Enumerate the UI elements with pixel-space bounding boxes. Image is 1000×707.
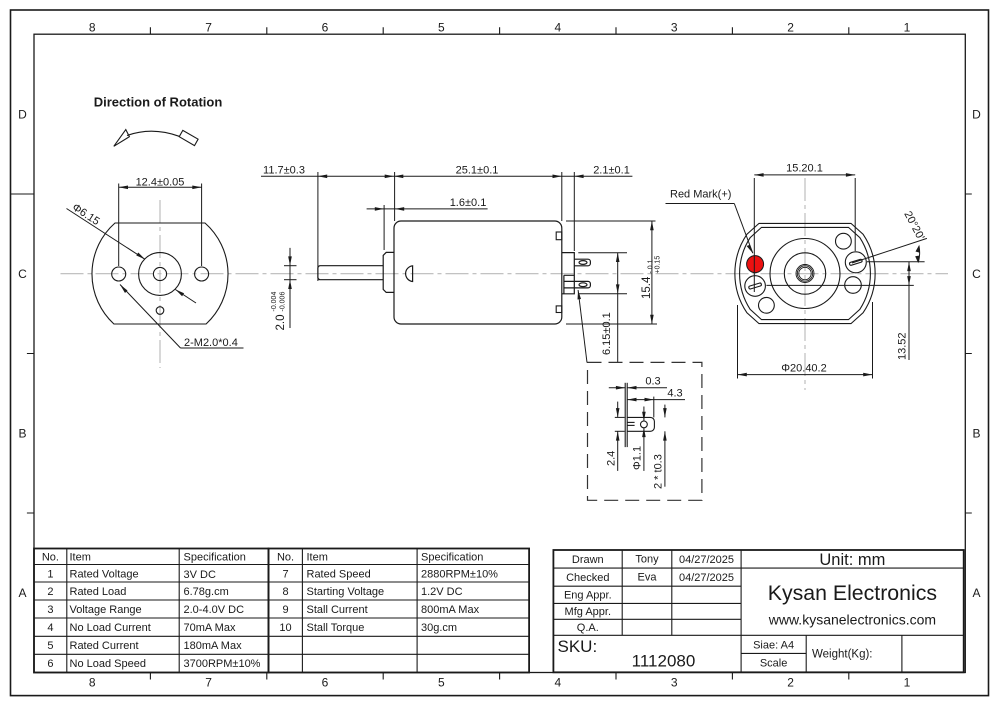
svg-text:- 0.1: - 0.1 — [648, 259, 655, 273]
svg-text:3: 3 — [671, 21, 678, 35]
svg-text:C: C — [972, 267, 981, 281]
svg-text:1: 1 — [47, 569, 53, 581]
svg-text:2 * t0.3: 2 * t0.3 — [653, 454, 665, 489]
svg-text:3V DC: 3V DC — [184, 569, 216, 581]
svg-text:2: 2 — [47, 586, 53, 598]
svg-text:Voltage Range: Voltage Range — [70, 604, 142, 616]
svg-text:2.0: 2.0 — [275, 315, 287, 331]
svg-text:12.4±0.05: 12.4±0.05 — [136, 177, 185, 189]
svg-text:Direction of Rotation: Direction of Rotation — [94, 95, 223, 110]
svg-text:3: 3 — [671, 676, 678, 690]
svg-text:SKU:: SKU: — [558, 637, 598, 656]
svg-text:6: 6 — [47, 658, 53, 670]
svg-text:1.2V DC: 1.2V DC — [421, 586, 463, 598]
svg-text:25.1±0.1: 25.1±0.1 — [456, 164, 499, 176]
svg-text:15.20.1: 15.20.1 — [786, 163, 823, 175]
svg-text:Specification: Specification — [421, 552, 483, 564]
svg-text:2.0-4.0V DC: 2.0-4.0V DC — [184, 604, 245, 616]
svg-text:Drawn: Drawn — [572, 554, 604, 566]
svg-text:Checked: Checked — [566, 572, 609, 584]
svg-text:5: 5 — [438, 21, 445, 35]
svg-text:6: 6 — [322, 21, 329, 35]
svg-text:7: 7 — [205, 21, 212, 35]
svg-text:2: 2 — [787, 676, 794, 690]
svg-text:Rated Speed: Rated Speed — [307, 569, 371, 581]
svg-text:13.52: 13.52 — [897, 332, 909, 360]
svg-text:9: 9 — [282, 604, 288, 616]
svg-text:1112080: 1112080 — [632, 652, 696, 671]
svg-text:A: A — [972, 586, 980, 600]
svg-text:6.78g.cm: 6.78g.cm — [184, 586, 229, 598]
svg-text:8: 8 — [282, 586, 288, 598]
svg-text:Red Mark(+): Red Mark(+) — [670, 188, 731, 200]
svg-text:04/27/2025: 04/27/2025 — [679, 572, 734, 584]
svg-text:Rated Current: Rated Current — [70, 640, 139, 652]
svg-text:D: D — [18, 108, 27, 122]
svg-text:Specification: Specification — [184, 552, 246, 564]
svg-text:Stall Current: Stall Current — [307, 604, 368, 616]
svg-text:No.: No. — [42, 552, 59, 564]
svg-text:10: 10 — [279, 622, 291, 634]
svg-text:Rated Load: Rated Load — [70, 586, 127, 598]
svg-text:No.: No. — [277, 552, 294, 564]
svg-text:3700RPM±10%: 3700RPM±10% — [184, 658, 261, 670]
svg-text:4: 4 — [554, 21, 561, 35]
svg-text:No Load Speed: No Load Speed — [70, 658, 146, 670]
svg-text:0.3: 0.3 — [645, 376, 660, 388]
svg-text:2-M2.0*0.4: 2-M2.0*0.4 — [184, 337, 238, 349]
svg-text:Φ20.40.2: Φ20.40.2 — [781, 362, 826, 374]
svg-text:8: 8 — [89, 21, 96, 35]
svg-text:D: D — [972, 108, 981, 122]
svg-text:www.kysanelectronics.com: www.kysanelectronics.com — [768, 612, 936, 628]
svg-text:2.1±0.1: 2.1±0.1 — [593, 164, 630, 176]
svg-text:Tony: Tony — [635, 554, 659, 566]
svg-text:4.3: 4.3 — [667, 387, 682, 399]
svg-text:2.4: 2.4 — [606, 451, 618, 466]
svg-text:1.6±0.1: 1.6±0.1 — [450, 197, 487, 209]
svg-text:15.4: 15.4 — [641, 276, 653, 299]
svg-text:Mfg Appr.: Mfg Appr. — [565, 606, 611, 618]
svg-text:B: B — [18, 427, 26, 441]
svg-text:C: C — [18, 267, 27, 281]
svg-text:Weight(Kg):: Weight(Kg): — [812, 649, 873, 661]
svg-text:Stall Torque: Stall Torque — [307, 622, 365, 634]
svg-text:Unit: mm: Unit: mm — [819, 551, 885, 569]
svg-text:Scale: Scale — [760, 657, 788, 669]
svg-text:5: 5 — [438, 676, 445, 690]
svg-text:No Load Current: No Load Current — [70, 622, 151, 634]
svg-text:1: 1 — [904, 21, 911, 35]
svg-text:2880RPM±10%: 2880RPM±10% — [421, 569, 498, 581]
svg-text:4: 4 — [554, 676, 561, 690]
svg-text:800mA Max: 800mA Max — [421, 604, 480, 616]
svg-text:Starting Voltage: Starting Voltage — [307, 586, 385, 598]
svg-text:Item: Item — [307, 552, 328, 564]
svg-text:3: 3 — [47, 604, 53, 616]
svg-text:70mA Max: 70mA Max — [184, 622, 236, 634]
svg-text:1: 1 — [904, 676, 911, 690]
svg-text:-0.004: -0.004 — [271, 292, 278, 312]
svg-text:Eva: Eva — [638, 572, 658, 584]
svg-text:11.7±0.3: 11.7±0.3 — [263, 164, 305, 176]
svg-text:+0.15: +0.15 — [655, 256, 662, 274]
svg-text:Φ1.1: Φ1.1 — [632, 446, 644, 470]
svg-text:5: 5 — [47, 640, 53, 652]
svg-text:8: 8 — [89, 676, 96, 690]
svg-text:7: 7 — [282, 569, 288, 581]
svg-text:6.15±0.1: 6.15±0.1 — [601, 312, 613, 355]
svg-text:B: B — [972, 427, 980, 441]
svg-text:4: 4 — [47, 622, 53, 634]
svg-text:A: A — [18, 586, 26, 600]
svg-text:-0.006: -0.006 — [280, 292, 287, 312]
svg-text:04/27/2025: 04/27/2025 — [679, 554, 734, 566]
svg-text:30g.cm: 30g.cm — [421, 622, 457, 634]
svg-text:2: 2 — [787, 21, 794, 35]
svg-text:6: 6 — [322, 676, 329, 690]
svg-text:Kysan Electronics: Kysan Electronics — [768, 581, 937, 605]
svg-text:Rated Voltage: Rated Voltage — [70, 569, 139, 581]
svg-text:Siae: A4: Siae: A4 — [753, 639, 794, 651]
svg-text:180mA Max: 180mA Max — [184, 640, 243, 652]
svg-text:Eng Appr.: Eng Appr. — [564, 590, 612, 602]
svg-text:7: 7 — [205, 676, 212, 690]
svg-text:Q.A.: Q.A. — [577, 622, 599, 634]
svg-text:Item: Item — [70, 552, 91, 564]
